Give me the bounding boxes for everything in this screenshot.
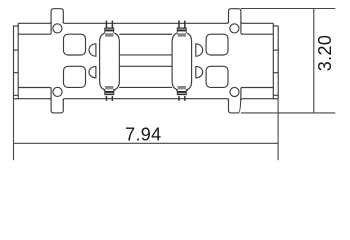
reed capsule 1 (left) bbox=[100, 21, 120, 101]
right body hole lower bbox=[206, 66, 228, 87]
top-left mounting tab bbox=[51, 9, 63, 33]
width dimension extension line left bbox=[13, 99, 15, 160]
bottom-left tab hole bbox=[53, 87, 62, 96]
top-left tab hole bbox=[53, 24, 62, 33]
coil rail 2 bbox=[119, 54, 172, 56]
capsule 2 bottom glass stripes bbox=[178, 87, 186, 89]
body right wall stub bbox=[272, 23, 274, 26]
coil rail 4 bbox=[119, 86, 172, 88]
capsule 1 top crimp bbox=[104, 28, 114, 32]
coil rail 3 bbox=[119, 65, 172, 67]
left terminal tab lower bbox=[89, 66, 96, 77]
reed capsule 2 (right) bbox=[172, 21, 192, 101]
left inner panel bbox=[18, 33, 51, 89]
body bottom edge bbox=[18, 99, 273, 101]
right end plate tick 2 bbox=[273, 72, 278, 74]
capsule 1 top leads bbox=[106, 21, 108, 28]
body top edge bbox=[18, 22, 273, 24]
right body hole upper bbox=[206, 34, 228, 55]
left end plate tick 1 bbox=[14, 49, 19, 51]
capsule 2 bottom crimp bbox=[176, 89, 179, 91]
capsule 2 top glass stripes bbox=[178, 34, 186, 36]
right terminal tab lower bbox=[196, 66, 203, 77]
capsule 1 bottom crimp bbox=[103, 89, 106, 91]
bottom-right mounting tab bbox=[229, 89, 241, 113]
height dimension line bbox=[313, 9, 315, 113]
left end plate bbox=[14, 26, 19, 99]
height dimension extension line top bbox=[241, 8, 335, 10]
capsule 1 bottom glass stripes bbox=[105, 87, 113, 89]
width dimension extension line right bbox=[277, 99, 279, 160]
left terminal tab upper bbox=[89, 44, 96, 56]
right terminal tab upper bbox=[196, 44, 203, 56]
right inner panel bbox=[241, 33, 273, 89]
capsule 2 top leads bbox=[178, 21, 180, 28]
coil rail 1 bbox=[119, 33, 172, 35]
bottom-right tab hole bbox=[230, 87, 239, 96]
right end plate tick 1 bbox=[273, 49, 278, 51]
right end plate bbox=[273, 26, 278, 99]
top-right tab hole bbox=[230, 24, 239, 33]
left end plate tick 2 bbox=[14, 72, 19, 74]
body left wall stub bbox=[17, 23, 19, 26]
height dimension extension line bottom bbox=[241, 112, 335, 114]
dimension lines bbox=[14, 9, 336, 161]
capsule 2 top crimp bbox=[177, 28, 187, 32]
bottom-left mounting tab bbox=[51, 89, 63, 113]
left body hole lower bbox=[64, 66, 86, 87]
capsule 2 bottom leads bbox=[178, 96, 180, 101]
left body hole upper bbox=[64, 34, 86, 55]
svg-text:7.94: 7.94 bbox=[125, 125, 161, 145]
capsule 1 bottom leads bbox=[106, 96, 108, 101]
capsule 2 body outline bbox=[172, 33, 192, 91]
capsule 1 body outline bbox=[100, 33, 120, 91]
left end plate tick 3 bbox=[14, 94, 19, 96]
right end plate tick 3 bbox=[273, 94, 278, 96]
top-right mounting tab bbox=[229, 9, 241, 33]
svg-text:3.20: 3.20 bbox=[315, 35, 335, 71]
width dimension line bbox=[14, 142, 279, 144]
capsule 1 top glass stripes bbox=[105, 34, 113, 36]
